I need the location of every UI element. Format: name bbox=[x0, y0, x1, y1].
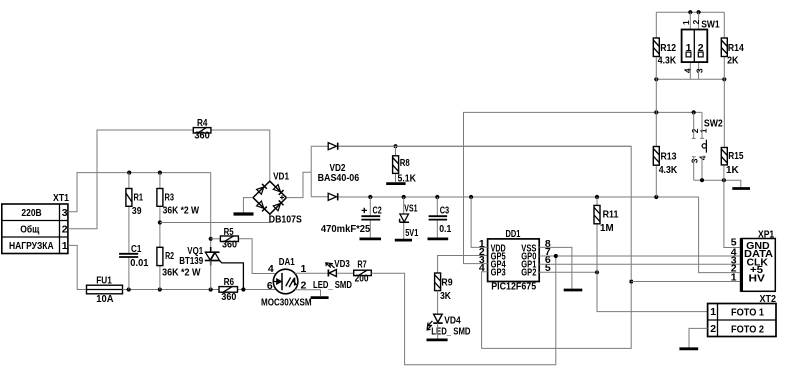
switch SW2 bbox=[689, 112, 723, 180]
svg-text:BT139: BT139 bbox=[179, 255, 203, 267]
wire VD2 common anode vertical bbox=[310, 146, 312, 197]
bridge rectifier VD1 bbox=[253, 170, 302, 225]
svg-text:1: 1 bbox=[710, 306, 716, 318]
wire XT1 pin2 up to R4 line bbox=[68, 130, 193, 229]
node junction GP0/R7 riser bbox=[554, 254, 558, 258]
resistor R3 bbox=[157, 189, 199, 217]
svg-text:XT1: XT1 bbox=[53, 192, 69, 204]
optocoupler DA1 MOC30XXSM bbox=[261, 256, 312, 308]
node junction VQ1-bottom rail bbox=[209, 287, 213, 291]
svg-text:0.01: 0.01 bbox=[130, 257, 148, 269]
wire R4 right to VD1 top bbox=[211, 130, 270, 181]
fuse FU1 bbox=[87, 274, 123, 305]
svg-text:C2: C2 bbox=[373, 205, 382, 217]
resistor R2 bbox=[157, 247, 201, 278]
svg-text:R6: R6 bbox=[224, 276, 235, 288]
svg-text:SW1: SW1 bbox=[701, 19, 720, 31]
wire R15 leads bbox=[723, 148, 725, 181]
node junction R8 top bbox=[393, 144, 397, 148]
node junction R1 top bbox=[127, 171, 131, 175]
capacitor C3 bbox=[429, 205, 452, 236]
svg-text:R14: R14 bbox=[728, 42, 744, 54]
svg-text:1: 1 bbox=[698, 128, 708, 133]
node junction C1-bottom rail bbox=[127, 287, 131, 291]
svg-text:R1: R1 bbox=[134, 191, 144, 203]
svg-text:2: 2 bbox=[691, 19, 701, 24]
node junction R15 bottom bbox=[722, 178, 726, 182]
node junction SW1 pin1 top bbox=[688, 10, 692, 14]
svg-text:4: 4 bbox=[682, 68, 692, 73]
svg-text:VS1: VS1 bbox=[404, 203, 417, 215]
wire VD4 to ground bbox=[437, 323, 439, 339]
svg-text:3: 3 bbox=[62, 207, 68, 219]
node junction R3-R2 to VD1 bottom bbox=[158, 220, 162, 224]
node junction R2-bottom rail bbox=[158, 287, 162, 291]
svg-text:R2: R2 bbox=[165, 250, 174, 262]
resistor R8 bbox=[393, 156, 417, 185]
svg-text:1: 1 bbox=[681, 20, 691, 25]
svg-text:4: 4 bbox=[268, 263, 274, 275]
wire R7 down and to GP0 riser bbox=[371, 256, 556, 365]
wire GP0 DATA line to XP1 pin4 bbox=[539, 255, 741, 257]
wire +5 rail VD2b to XP1 corner bbox=[339, 197, 741, 273]
zener diode VS1 bbox=[400, 203, 419, 240]
resistor R9 bbox=[435, 273, 453, 302]
wire C2 leads bbox=[369, 197, 371, 238]
svg-text:360: 360 bbox=[194, 130, 210, 142]
svg-text:2: 2 bbox=[698, 42, 704, 54]
svg-text:MOC30XXSM: MOC30XXSM bbox=[261, 296, 312, 308]
wire R1 leads bbox=[128, 173, 130, 290]
svg-text:200: 200 bbox=[355, 273, 369, 285]
led VD4 bbox=[427, 314, 471, 337]
diode VD2a (top half of BAS40-06) bbox=[318, 143, 360, 185]
wire HV junction to XP1 pin1 bbox=[631, 281, 741, 283]
diode VD2b (bottom half of BAS40-06) bbox=[328, 193, 338, 200]
node junction R11 top bbox=[595, 195, 599, 199]
svg-text:4: 4 bbox=[698, 155, 708, 160]
triac VQ1 bbox=[179, 245, 219, 267]
wire HV line VD2a to right vertical bbox=[339, 145, 631, 147]
svg-text:1: 1 bbox=[731, 271, 737, 283]
svg-text:R4: R4 bbox=[197, 117, 208, 129]
svg-text:HV: HV bbox=[749, 274, 766, 285]
resistor R15 bbox=[721, 148, 743, 176]
ground under C2 bbox=[360, 237, 382, 240]
resistor R7 bbox=[354, 258, 372, 284]
wire VQ1 below to bottom rail bbox=[210, 261, 212, 290]
svg-text:XT2: XT2 bbox=[760, 293, 777, 305]
svg-text:R7: R7 bbox=[357, 258, 366, 270]
wire R11 node down to XT2 pin1 bbox=[597, 272, 708, 311]
svg-text:2: 2 bbox=[62, 223, 68, 235]
node junction R5 tap bbox=[209, 237, 213, 241]
capacitor C1 bbox=[119, 243, 149, 269]
connector XT2 bbox=[708, 293, 777, 337]
node junction R13 top on GP4 line bbox=[654, 110, 658, 114]
wire DD1 pin1 VDD up to +5 rail bbox=[471, 197, 488, 247]
node junction SW2 pin4 bottom bbox=[700, 178, 704, 182]
svg-text:1: 1 bbox=[686, 42, 692, 54]
node junction SW1 pin2 top bbox=[697, 10, 701, 14]
svg-text:BAS40-06: BAS40-06 bbox=[318, 172, 360, 184]
svg-text:6: 6 bbox=[267, 280, 273, 292]
ground VSS bbox=[564, 289, 583, 292]
wire VD2a anode lead bbox=[311, 145, 328, 147]
ground XT2 pin2 bbox=[679, 347, 698, 350]
svg-text:4.3K: 4.3K bbox=[658, 55, 677, 67]
wire SW1 pin1 stub bbox=[689, 12, 691, 29]
switch SW1 bbox=[681, 19, 720, 74]
svg-text:0.1: 0.1 bbox=[439, 223, 451, 235]
ground under C3 bbox=[428, 237, 449, 240]
wire VD1 right corner to VD2 anodes bbox=[286, 172, 311, 197]
ground DA1 pin2 bbox=[311, 296, 329, 299]
svg-text:10A: 10A bbox=[96, 293, 114, 305]
node junction C3 top bbox=[435, 195, 439, 199]
wire DA1 pin2 to ground bbox=[295, 290, 321, 297]
svg-text:FOTO 2: FOTO 2 bbox=[731, 324, 764, 336]
wire bottom rail FU1 to DA1 pin6 bbox=[123, 289, 277, 291]
resistor R6 bbox=[219, 276, 238, 303]
wire R8 leads bbox=[395, 146, 397, 182]
wire SW1 pin3 stub bbox=[698, 62, 700, 79]
svg-text:R12: R12 bbox=[660, 42, 676, 54]
svg-text:1: 1 bbox=[62, 240, 68, 252]
svg-text:DB107S: DB107S bbox=[269, 213, 302, 225]
wire mains rail down to VQ1 bbox=[210, 173, 212, 251]
resistor R4 bbox=[193, 117, 211, 142]
connector XP1 bbox=[731, 229, 776, 292]
resistor R5 bbox=[220, 226, 238, 251]
wire R13 leads bbox=[655, 112, 657, 197]
svg-text:R8: R8 bbox=[400, 157, 410, 169]
svg-text:36K *2 W: 36K *2 W bbox=[162, 267, 200, 279]
wire XT1 pin3 to mains rail bbox=[68, 173, 211, 212]
svg-text:R15: R15 bbox=[728, 150, 743, 162]
svg-text:1M: 1M bbox=[600, 222, 614, 234]
wire C3 leads bbox=[436, 197, 438, 238]
ground mains earth bar bbox=[234, 212, 254, 215]
resistor R13 bbox=[653, 147, 677, 177]
svg-text:R3: R3 bbox=[165, 191, 175, 203]
node junction VDD tap bbox=[469, 195, 473, 199]
svg-text:DD1: DD1 bbox=[506, 228, 521, 240]
svg-text:FU1: FU1 bbox=[96, 274, 112, 286]
svg-text:VD3: VD3 bbox=[334, 258, 350, 270]
node junction R12 bottom bbox=[654, 77, 658, 81]
wire GP2 to R11 bottom node bbox=[539, 271, 597, 273]
svg-text:4.3K: 4.3K bbox=[659, 164, 678, 176]
svg-text:360: 360 bbox=[221, 291, 236, 303]
wire VD2b anode lead bbox=[311, 196, 328, 198]
svg-text:GP2: GP2 bbox=[521, 268, 536, 279]
svg-text:LED_ SMD: LED_ SMD bbox=[313, 279, 352, 291]
ground near R15 bbox=[732, 187, 750, 190]
svg-text:220В: 220В bbox=[21, 207, 42, 219]
svg-text:470mkF*25: 470mkF*25 bbox=[321, 223, 371, 235]
wire R14 leads bbox=[723, 12, 725, 147]
connector XT1 bbox=[2, 192, 69, 254]
node junction SW2 pin2 bbox=[692, 110, 696, 114]
node junction HV tap (square) bbox=[630, 280, 634, 284]
resistor R12 bbox=[653, 38, 676, 67]
resistor R14 bbox=[721, 38, 744, 67]
wire R5 right to DA1 pin4 bbox=[238, 239, 276, 274]
wire DD1 pin4 GP3 down and around to HV riser bbox=[339, 146, 632, 348]
wire VS1 leads bbox=[403, 197, 405, 239]
ground under VS1 bbox=[395, 239, 412, 242]
svg-text:C3: C3 bbox=[440, 205, 450, 217]
wire R9 to VD4 bbox=[437, 291, 439, 314]
node junction R13 bottom bbox=[654, 195, 658, 199]
wire XT2 pin2 to ground bbox=[689, 328, 708, 347]
wire VD1 left corner to earth bbox=[243, 198, 253, 213]
svg-text:1K: 1K bbox=[726, 164, 739, 176]
svg-text:SW2: SW2 bbox=[704, 118, 723, 130]
wire SW1 top net bbox=[656, 11, 724, 13]
node junction C2 top bbox=[368, 195, 372, 199]
wire R5 left lead bbox=[211, 238, 221, 240]
svg-text:36K *2 W: 36K *2 W bbox=[163, 205, 200, 217]
svg-text:2K: 2K bbox=[727, 55, 739, 67]
wire SW1 pin4 stub bbox=[689, 62, 691, 79]
wire GP5 to R9 bbox=[438, 256, 488, 274]
svg-text:Общ: Общ bbox=[20, 223, 39, 235]
svg-text:НАГРУЗКА: НАГРУЗКА bbox=[9, 240, 54, 252]
wire VQ1 gate to R6 right bbox=[220, 261, 244, 290]
svg-text:2: 2 bbox=[710, 323, 716, 335]
ground under VD4 bbox=[427, 338, 448, 341]
node junction R6-gate rail bbox=[241, 287, 245, 291]
capacitor C2 polarized bbox=[321, 205, 382, 235]
svg-text:R9: R9 bbox=[441, 276, 452, 288]
wire GND column down to XP1 pin5 bbox=[724, 180, 741, 247]
node junction R3 top bbox=[158, 171, 162, 175]
wire XT1 pin1 to FU1 bbox=[68, 245, 87, 289]
node junction GP2/R11/XT2 bbox=[595, 270, 599, 274]
svg-text:XP1: XP1 bbox=[758, 229, 774, 241]
svg-text:R11: R11 bbox=[603, 209, 619, 221]
svg-text:DA1: DA1 bbox=[279, 256, 295, 268]
svg-text:3: 3 bbox=[695, 68, 705, 73]
wire VD3 to R7 bbox=[337, 272, 354, 274]
wire SW1 pin2 stub bbox=[698, 12, 700, 29]
resistor R1 bbox=[126, 189, 143, 218]
svg-text:C1: C1 bbox=[131, 243, 142, 255]
svg-text:360: 360 bbox=[222, 239, 237, 251]
wire R11 leads bbox=[596, 197, 598, 272]
wire DD1 pin3 GP4 up and right to R13/SW2 bbox=[464, 112, 703, 263]
svg-text:PIC12F675: PIC12F675 bbox=[491, 281, 536, 293]
wire SW2/R15 bottom net bbox=[694, 180, 741, 187]
node junction VS1 top bbox=[402, 195, 406, 199]
wire SW1 bottom net bbox=[656, 78, 724, 80]
led VD3 bbox=[313, 258, 352, 291]
svg-text:R5: R5 bbox=[224, 226, 234, 238]
svg-text:39: 39 bbox=[132, 205, 142, 217]
wire R3/R2 junction to VD1 bottom corner bbox=[160, 214, 270, 222]
svg-text:R13: R13 bbox=[661, 151, 677, 163]
resistor R11 bbox=[594, 205, 619, 233]
wire GP1 CLK line to XP1 pin3 bbox=[539, 263, 741, 265]
wire DA1 pin1 to VD3 bbox=[295, 272, 328, 274]
svg-text:3K: 3K bbox=[440, 290, 451, 302]
svg-text:GP3: GP3 bbox=[491, 268, 506, 279]
wire R12 leads bbox=[655, 12, 657, 112]
svg-text:FOTO 1: FOTO 1 bbox=[731, 307, 764, 319]
ground under R8 bbox=[386, 182, 405, 185]
wire R3-R2 column bbox=[159, 173, 161, 290]
svg-text:VD1: VD1 bbox=[273, 170, 289, 182]
IC DD1 PIC12F675 bbox=[479, 228, 551, 292]
node junction R14 bottom bbox=[722, 77, 726, 81]
svg-text:5V1: 5V1 bbox=[405, 227, 418, 239]
wire DD1 pin8 VSS to ground bbox=[539, 247, 572, 288]
